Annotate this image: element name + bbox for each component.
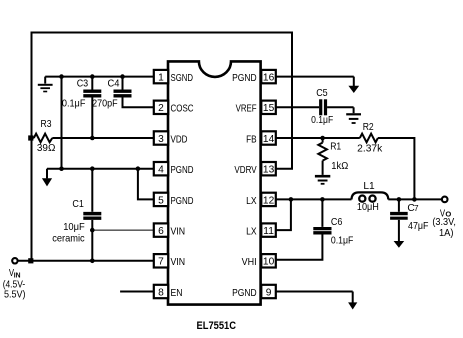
svg-text:VDRV: VDRV [234, 165, 256, 176]
svg-text:R1: R1 [330, 141, 341, 152]
svg-text:2: 2 [158, 103, 164, 114]
svg-text:0.1μF: 0.1μF [311, 115, 333, 126]
svg-text:C5: C5 [316, 88, 328, 99]
svg-text:2.37k: 2.37k [357, 143, 383, 154]
svg-text:5: 5 [158, 195, 164, 206]
svg-text:1: 1 [158, 73, 164, 84]
svg-text:L1: L1 [363, 181, 375, 192]
svg-text:SGND: SGND [171, 73, 194, 84]
svg-text:3: 3 [158, 134, 164, 145]
svg-text:LX: LX [246, 227, 257, 238]
svg-text:6: 6 [158, 226, 164, 237]
svg-text:VIN: VIN [171, 257, 186, 268]
svg-text:O: O [445, 209, 451, 218]
svg-text:9: 9 [266, 287, 272, 298]
svg-text:COSC: COSC [171, 104, 194, 115]
svg-text:VREF: VREF [236, 104, 257, 115]
svg-text:PGND: PGND [171, 196, 194, 207]
svg-text:FB: FB [246, 134, 257, 145]
svg-text:1kΩ: 1kΩ [331, 161, 348, 172]
svg-text:0.1μF: 0.1μF [331, 236, 354, 247]
svg-text:270pF: 270pF [92, 99, 118, 110]
svg-text:8: 8 [158, 287, 164, 298]
svg-text:10μH: 10μH [357, 202, 379, 213]
svg-text:10μF: 10μF [63, 222, 84, 233]
svg-text:PGND: PGND [232, 73, 257, 84]
svg-text:EL7551C: EL7551C [197, 320, 237, 332]
svg-text:13: 13 [263, 165, 275, 176]
svg-text:12: 12 [263, 195, 275, 206]
svg-text:15: 15 [263, 103, 275, 114]
svg-text:EN: EN [171, 288, 183, 299]
svg-text:10: 10 [263, 257, 275, 268]
svg-text:1A): 1A) [439, 228, 454, 239]
svg-text:14: 14 [263, 134, 275, 145]
svg-text:16: 16 [263, 73, 275, 84]
svg-text:VIN: VIN [171, 227, 186, 238]
svg-text:0.1μF: 0.1μF [62, 99, 86, 110]
svg-text:C6: C6 [331, 217, 343, 228]
svg-text:ceramic: ceramic [52, 234, 84, 245]
svg-text:7: 7 [414, 204, 419, 213]
svg-text:11: 11 [263, 226, 274, 237]
svg-text:IN: IN [14, 271, 21, 280]
svg-text:47μF: 47μF [408, 221, 429, 232]
svg-text:C4: C4 [108, 78, 120, 89]
svg-text:7: 7 [158, 257, 164, 268]
svg-text:4: 4 [158, 165, 164, 176]
svg-text:PGND: PGND [232, 288, 257, 299]
svg-text:5.5V): 5.5V) [4, 289, 26, 300]
svg-text:R3: R3 [41, 119, 52, 130]
svg-text:VHI: VHI [242, 257, 257, 268]
svg-text:C3: C3 [77, 79, 89, 90]
svg-text:39Ω: 39Ω [37, 143, 56, 154]
svg-text:C1: C1 [72, 199, 84, 210]
svg-text:VDD: VDD [171, 134, 188, 145]
svg-text:R2: R2 [363, 122, 374, 133]
svg-text:PGND: PGND [171, 165, 194, 176]
svg-text:LX: LX [246, 196, 257, 207]
